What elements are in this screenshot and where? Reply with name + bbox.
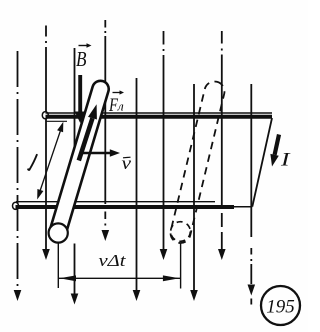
rod ghost (later position, dashed) (168, 79, 226, 245)
arrowhead field line 1 (14, 290, 22, 301)
bottom rail (16, 202, 253, 207)
label F_Л with vector bar (108, 90, 124, 116)
field line 4 (x=105.3, short arrow above label) (104, 20, 106, 226)
svg-text:vΔt: vΔt (99, 251, 128, 270)
top rail (46, 113, 273, 121)
top rail left cap (42, 112, 48, 119)
loop right edge wire (252, 118, 272, 207)
arrowhead field line 3 (71, 294, 79, 305)
current arrow I (275, 135, 279, 155)
label l (28, 155, 37, 170)
force arrow F (inside rod) (79, 118, 93, 160)
field line 2 (x=46, short arrow) (45, 26, 47, 250)
rod (conductor, initial position) (47, 79, 110, 243)
dimension v·Δt arrowheads (60, 275, 77, 281)
rod bottom end face (49, 223, 68, 242)
B field thick arrow (78, 75, 82, 113)
label B with vector bar (76, 43, 92, 71)
arrowhead field line 5 (133, 290, 141, 301)
figure number circle 195 (261, 286, 300, 325)
arrowhead field line 8 (218, 249, 226, 260)
arrowhead field line 9 (248, 285, 256, 296)
velocity arrow v (81, 152, 111, 155)
field line 9 (x=251.3, dash-dot below rail, long arrow) (250, 84, 252, 305)
field line 3 (x=74.5, hidden behind rod mid-way, long arrow) (74, 48, 76, 294)
dimension arrow l (between rails) (40, 131, 61, 192)
arrowhead field line 6 (160, 249, 168, 260)
field line 7 (x=194, long arrow) (193, 84, 195, 290)
arrowhead field line 7 (190, 290, 198, 301)
dimension v·Δt ticks (58, 243, 180, 289)
field line 8 (x=221.8, dash-dot, short arrow) (221, 31, 223, 249)
field line 6 (x=163.5, short arrow) (163, 31, 165, 249)
field line 5 (x=136.5, long arrow) (136, 78, 138, 290)
svg-text:F: F (108, 95, 118, 116)
svg-text:л: л (117, 99, 124, 114)
field line 1 (x=17.5, dash-dot, long arrow) (17, 51, 19, 290)
arrowhead field line 2 (42, 249, 50, 260)
arrowhead field line 4 (102, 230, 110, 241)
rod ghost bottom end face (171, 222, 191, 242)
svg-text:v: v (122, 153, 132, 173)
svg-text:B: B (76, 47, 87, 71)
svg-text:195: 195 (266, 297, 295, 318)
label v with bar (122, 153, 132, 173)
bottom rail left cap (13, 202, 19, 209)
